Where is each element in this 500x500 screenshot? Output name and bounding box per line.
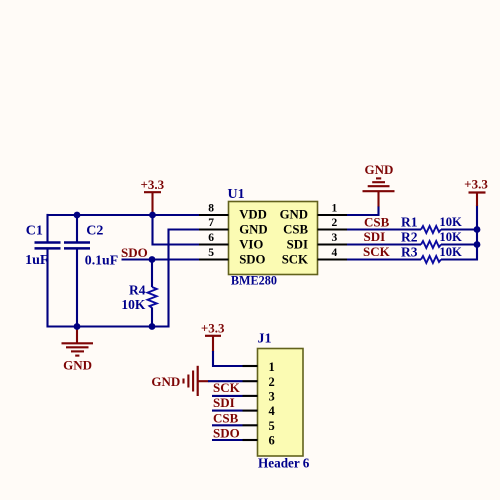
wire C1 branch upper [46, 214, 48, 242]
wire C2 branch lower [76, 249, 78, 328]
svg-text:+3.3: +3.3 [464, 177, 488, 192]
svg-text:1: 1 [332, 202, 338, 214]
wire CSB net (U1 pin2 to R1) [347, 228, 421, 230]
svg-text:GND: GND [63, 358, 92, 373]
svg-text:3: 3 [332, 232, 338, 244]
U1 pin 1 stub [318, 214, 348, 216]
svg-text:SDI: SDI [213, 395, 235, 410]
wire J1 pin1 to +3.3 [213, 351, 243, 366]
svg-text:C1: C1 [26, 224, 43, 239]
wire CSB net at J1 pin5 [212, 424, 243, 426]
wire R1 to +3.3 rail [441, 228, 478, 230]
wire SDI net at J1 pin4 [212, 410, 243, 412]
wire GND bottom rail [47, 325, 169, 327]
J1 pin 2 stub [243, 380, 258, 382]
ground symbol bottom left [62, 327, 94, 373]
connector J1 body Header 6 [258, 331, 310, 470]
svg-text:3: 3 [269, 390, 275, 404]
svg-text:+3.3: +3.3 [201, 321, 225, 336]
svg-text:5: 5 [208, 247, 214, 259]
J1 pin 6 stub [243, 439, 258, 441]
svg-text:VDD: VDD [239, 208, 267, 222]
junction dot C2 bottom / GND [74, 323, 81, 330]
svg-text:SDO: SDO [239, 252, 265, 266]
svg-text:GND: GND [280, 208, 308, 222]
svg-text:R4: R4 [129, 282, 146, 297]
svg-text:5: 5 [269, 419, 275, 433]
resistor R4 zigzag [148, 287, 157, 308]
wire U1 pin6 VIO branch from +3.3 node [153, 215, 229, 245]
J1 pin 4 stub [243, 410, 258, 412]
svg-text:10K: 10K [439, 230, 462, 244]
capacitor C1 plates [35, 243, 61, 249]
junction dot R2 / +3.3 [474, 241, 481, 248]
svg-text:SDI: SDI [287, 238, 308, 252]
J1 pin 5 stub [243, 424, 258, 426]
svg-text:SCK: SCK [363, 244, 391, 259]
svg-text:4: 4 [269, 404, 276, 418]
wire SDO net (U1 pin 5) [122, 258, 229, 260]
svg-text:CSB: CSB [364, 214, 390, 229]
ground symbol above U1 pin1 (pointing up) [363, 162, 395, 207]
op-amp U1 body BME280 [228, 187, 318, 288]
junction dot C2 top [74, 212, 81, 219]
svg-text:1: 1 [269, 360, 275, 374]
svg-text:R1: R1 [401, 215, 418, 230]
capacitor C2 plates [64, 243, 90, 249]
wire SCK net at J1 pin3 [212, 395, 243, 397]
resistor R1 zigzag [421, 226, 441, 233]
junction dot +3.3 / VDD / VIO node [149, 212, 156, 219]
svg-text:BME280: BME280 [231, 273, 277, 287]
svg-text:Header 6: Header 6 [258, 455, 310, 470]
U1 pin 5 stub [199, 258, 229, 260]
power +3.3 symbol at J1 [201, 321, 225, 352]
wire R4 upper lead [151, 260, 153, 288]
svg-text:SCK: SCK [213, 380, 241, 395]
wire U1 pin1 to ground [347, 206, 379, 215]
svg-text:10K: 10K [439, 215, 462, 229]
J1 pin 3 stub [243, 395, 258, 397]
svg-text:8: 8 [208, 202, 214, 214]
wire R4 lower lead [151, 308, 153, 327]
svg-text:J1: J1 [258, 331, 272, 346]
U1 pin 2 stub [318, 228, 348, 230]
U1 pin 4 stub [318, 258, 348, 260]
svg-text:R2: R2 [401, 230, 418, 245]
wire U1 pin7 GND vertical drop [169, 230, 229, 328]
power +3.3 symbol at VDD rail [140, 177, 164, 215]
wire C1 branch lower [46, 249, 48, 328]
svg-text:CSB: CSB [213, 410, 239, 425]
junction dot SDO / R4 node [149, 256, 156, 263]
svg-text:GND: GND [365, 162, 394, 177]
U1 pin 3 stub [318, 243, 348, 245]
wire C2 branch upper [76, 215, 78, 242]
svg-text:GND: GND [239, 222, 267, 236]
wire SDI net (U1 pin3 to R2) [347, 243, 421, 245]
svg-text:SDO: SDO [121, 245, 148, 260]
svg-text:4: 4 [332, 247, 338, 259]
svg-text:SDI: SDI [364, 229, 386, 244]
svg-text:6: 6 [269, 434, 275, 448]
resistor R2 zigzag [421, 241, 441, 248]
svg-text:2: 2 [269, 375, 275, 389]
J1 pin 1 stub [243, 365, 258, 367]
U1 pin 7 stub [199, 228, 229, 230]
power +3.3 symbol right [464, 177, 488, 206]
svg-text:SDO: SDO [213, 426, 240, 441]
svg-text:C2: C2 [86, 224, 103, 239]
svg-text:10K: 10K [439, 245, 462, 259]
svg-text:R3: R3 [401, 245, 418, 260]
wire SDO net at J1 pin6 [212, 439, 243, 441]
svg-text:7: 7 [208, 217, 214, 229]
U1 pin 6 stub [199, 243, 229, 245]
svg-text:10K: 10K [121, 297, 145, 312]
U1 pin 8 stub [199, 214, 229, 216]
svg-text:U1: U1 [228, 187, 245, 202]
svg-text:6: 6 [208, 232, 214, 244]
svg-text:+3.3: +3.3 [140, 177, 164, 192]
svg-text:2: 2 [332, 217, 338, 229]
junction dot R4 bottom [149, 323, 156, 330]
resistor R3 zigzag [421, 256, 441, 263]
junction dot R1 / +3.3 [474, 226, 481, 233]
wire R2 to +3.3 rail [441, 243, 478, 245]
svg-text:CSB: CSB [283, 222, 308, 236]
ground symbol at J1 pin2 (pointing left) [151, 366, 208, 396]
wire +3.3 vertical right [476, 205, 478, 261]
wire J1 pin2 to ground [208, 380, 243, 382]
svg-text:VIO: VIO [239, 238, 263, 252]
svg-text:1uF: 1uF [25, 253, 48, 268]
svg-text:SCK: SCK [282, 252, 308, 266]
svg-text:GND: GND [151, 374, 180, 389]
wire R3 to +3.3 rail [441, 258, 477, 260]
svg-text:0.1uF: 0.1uF [85, 253, 118, 268]
wire SCK net (U1 pin4 to R3) [347, 258, 421, 260]
wire VDD top rail (C1 to U1 pin 8) [48, 214, 229, 216]
